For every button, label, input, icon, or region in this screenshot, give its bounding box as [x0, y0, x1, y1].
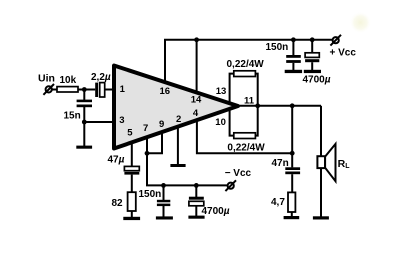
input terminal Uin — [43, 84, 54, 95]
wire pin 5 to C 47u — [131, 143, 133, 167]
wire output from apex to speaker branch — [237, 105, 321, 107]
wire 10k to C 2,2u — [78, 89, 95, 91]
wire pin 16 up and +Vcc rail — [165, 40, 332, 83]
wire rail to C 150n top — [292, 40, 294, 55]
svg-text:47µ: 47µ — [108, 155, 125, 166]
wire rail to C 150n bottom — [163, 185, 165, 200]
node junction dot output 47n — [290, 103, 295, 108]
svg-text:11: 11 — [244, 96, 255, 107]
node junction dot 150n rail — [291, 37, 296, 42]
capacitor 4700u (top, electrolytic) — [305, 53, 319, 62]
wire C 4700u bottom to ground — [195, 206, 197, 216]
ground (82) — [123, 217, 140, 220]
wire rail to C 4700u bottom — [195, 185, 197, 197]
svg-text:3: 3 — [119, 115, 124, 126]
ground (4700u bottom) — [188, 216, 204, 219]
wire input to R 10k — [52, 89, 57, 91]
node junction dot 150n bottom — [161, 183, 166, 188]
ground (speaker) — [313, 216, 329, 219]
svg-text:14: 14 — [191, 95, 202, 106]
svg-text:150n: 150n — [266, 42, 289, 53]
wire pin 14 to +Vcc rail — [196, 40, 198, 94]
svg-text:4: 4 — [193, 108, 199, 119]
ground (150n top) — [285, 70, 302, 73]
capacitor 4700u bottom (electrolytic) — [189, 197, 204, 206]
wire C 150n bottom to ground — [163, 206, 165, 217]
svg-text:2: 2 — [176, 114, 181, 125]
op-amp U1 (power amplifier IC triangle) — [114, 66, 238, 149]
node junction dot pin 14 rail — [194, 37, 199, 42]
svg-text:10k: 10k — [60, 75, 77, 86]
svg-text:0,22/4W: 0,22/4W — [227, 143, 265, 154]
ground (4700u top) — [304, 70, 321, 73]
svg-text:1: 1 — [120, 84, 126, 95]
wire rail to C 4700u top — [311, 40, 313, 53]
wire output node down to 47n — [291, 106, 293, 168]
wire pin 9 to pin 7 junction — [147, 133, 162, 153]
svg-text:5: 5 — [127, 128, 133, 139]
wire C 47u to R 82 — [131, 175, 133, 193]
wire R 82 to ground — [131, 211, 133, 217]
node junction dot pins 7-9 — [145, 151, 150, 156]
wire C 2,2u to pin 1 — [105, 89, 115, 91]
resistor 0,22/4W top — [234, 71, 256, 77]
ground (pin 2) — [170, 164, 185, 167]
capacitor 2,2u (electrolytic) — [95, 83, 105, 97]
svg-text:4700µ: 4700µ — [303, 75, 331, 86]
node junction dot 4700u rail — [310, 37, 315, 42]
wire junction down to C 15n — [83, 90, 85, 101]
svg-text:+ Vcc: + Vcc — [330, 48, 357, 59]
ground (150n bottom) — [156, 216, 173, 219]
wire 0,22 top to output node — [255, 74, 258, 106]
svg-text:15n: 15n — [64, 111, 81, 122]
node junction dot feedback 47n — [290, 151, 295, 156]
resistor 0,22/4W bottom — [234, 133, 256, 139]
wire pin 2 to ground — [177, 127, 179, 164]
svg-text:47n: 47n — [272, 158, 289, 169]
wire 0,22 bottom to output node — [255, 106, 258, 136]
wire C 150n top to ground — [292, 63, 294, 70]
node junction dot 4700u bottom — [194, 183, 199, 188]
svg-text:4,7: 4,7 — [271, 197, 285, 208]
capacitor 150n (top) — [286, 55, 301, 63]
svg-text:9: 9 — [159, 119, 164, 130]
svg-text:4700µ: 4700µ — [202, 206, 230, 217]
wire pin 10 loop down — [230, 108, 235, 136]
resistor 4,7 — [288, 192, 295, 212]
ground (input filter) — [76, 146, 92, 149]
resistor 82 — [128, 192, 136, 211]
wire pin 7 down and -Vcc rail — [147, 138, 228, 185]
capacitor 47n — [285, 167, 300, 174]
capacitor 150n bottom — [157, 200, 170, 206]
svg-text:2,2µ: 2,2µ — [91, 72, 111, 83]
node junction dot output resistors — [255, 103, 260, 108]
wire speaker to ground — [320, 168, 322, 217]
wire junction to pin 3 — [84, 121, 115, 123]
svg-text:16: 16 — [160, 86, 171, 97]
wire output down to speaker — [320, 106, 322, 157]
terminal -Vcc — [225, 180, 236, 191]
wire C 15n to ground — [83, 107, 85, 146]
svg-text:0,22/4W: 0,22/4W — [227, 59, 265, 70]
svg-text:13: 13 — [216, 86, 227, 97]
scan artifact blob — [350, 12, 372, 34]
ground (zobel) — [284, 216, 300, 219]
terminal +Vcc — [330, 35, 341, 46]
svg-text:82: 82 — [112, 198, 124, 209]
svg-text:10: 10 — [215, 117, 226, 128]
svg-text:− Vcc: − Vcc — [225, 168, 252, 179]
wire C 4700u top to ground — [311, 62, 313, 70]
wire pin 13 loop up — [230, 74, 235, 104]
wire 47n to R 4,7 — [291, 174, 293, 193]
speaker RL — [317, 144, 335, 181]
svg-text:Uin: Uin — [38, 73, 55, 85]
wire R 4,7 to ground — [291, 212, 293, 217]
node junction dot input — [82, 87, 87, 92]
node junction dot pin 3 — [82, 120, 87, 125]
wire pin 4 feedback to output — [197, 121, 292, 153]
resistor 10k — [57, 87, 78, 92]
capacitor 47u (electrolytic) — [124, 166, 139, 174]
svg-text:150n: 150n — [139, 189, 162, 200]
svg-text:7: 7 — [143, 123, 148, 134]
capacitor 15n — [77, 100, 92, 108]
